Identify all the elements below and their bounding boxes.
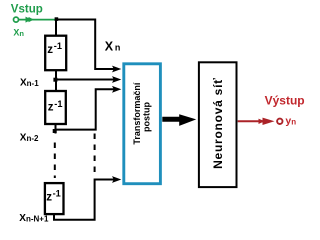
thick arrow between blocks	[162, 114, 196, 126]
svg-text:z: z	[46, 192, 52, 204]
svg-text:z: z	[47, 44, 53, 56]
wire input (green)	[19, 19, 56, 21]
output terminal circle	[277, 119, 282, 124]
svg-text:Xn-N+1: Xn-N+1	[19, 213, 49, 224]
wire top horizontal to corner	[56, 20, 116, 70]
wire junction down to Z1	[55, 20, 57, 37]
svg-text:Transformační: Transformační	[132, 82, 142, 145]
svg-text:Xn-1: Xn-1	[20, 78, 39, 89]
svg-text:-1: -1	[54, 41, 62, 51]
node junction top (Xn tap)	[55, 17, 59, 21]
svg-text:n: n	[115, 43, 121, 53]
wire Z2 down to junction	[55, 124, 57, 134]
svg-text:postup: postup	[142, 102, 152, 132]
svg-text:Neuronová síť: Neuronová síť	[211, 77, 225, 169]
svg-text:yn: yn	[285, 115, 296, 127]
svg-text:Xn: Xn	[13, 27, 24, 37]
block Neuronova sit	[199, 62, 237, 187]
svg-text:X: X	[105, 40, 114, 54]
svg-text:-1: -1	[53, 189, 61, 199]
wire tap Xn-1 (arrow 2)	[56, 79, 116, 81]
node junction Xn-2	[53, 129, 57, 133]
wire output (red)	[238, 120, 270, 122]
block Transformacni postup	[124, 64, 161, 184]
delay box Z2 (z^-1)	[45, 91, 66, 124]
wire tap Xn-2 up and into box (arrow 3)	[55, 89, 116, 129]
node junction Xn-1	[53, 78, 57, 82]
arrowhead into Transformacni (arrow 1)	[112, 66, 121, 73]
delay box Z1 (z^-1)	[45, 36, 66, 70]
svg-text:-1: -1	[54, 99, 62, 109]
delay box Z3 (z^-1)	[45, 183, 64, 214]
input terminal circle	[14, 17, 19, 22]
wire Z1 to Z2	[55, 70, 57, 91]
svg-text:Výstup: Výstup	[265, 94, 305, 108]
dashed wire left column	[54, 143, 56, 179]
svg-text:Xn-2: Xn-2	[20, 132, 39, 143]
svg-text:Vstup: Vstup	[11, 3, 43, 15]
wire Z3 output down right up into box (arrow 4)	[54, 180, 116, 220]
dashed wire right column	[94, 134, 96, 177]
svg-text:z: z	[48, 102, 54, 114]
